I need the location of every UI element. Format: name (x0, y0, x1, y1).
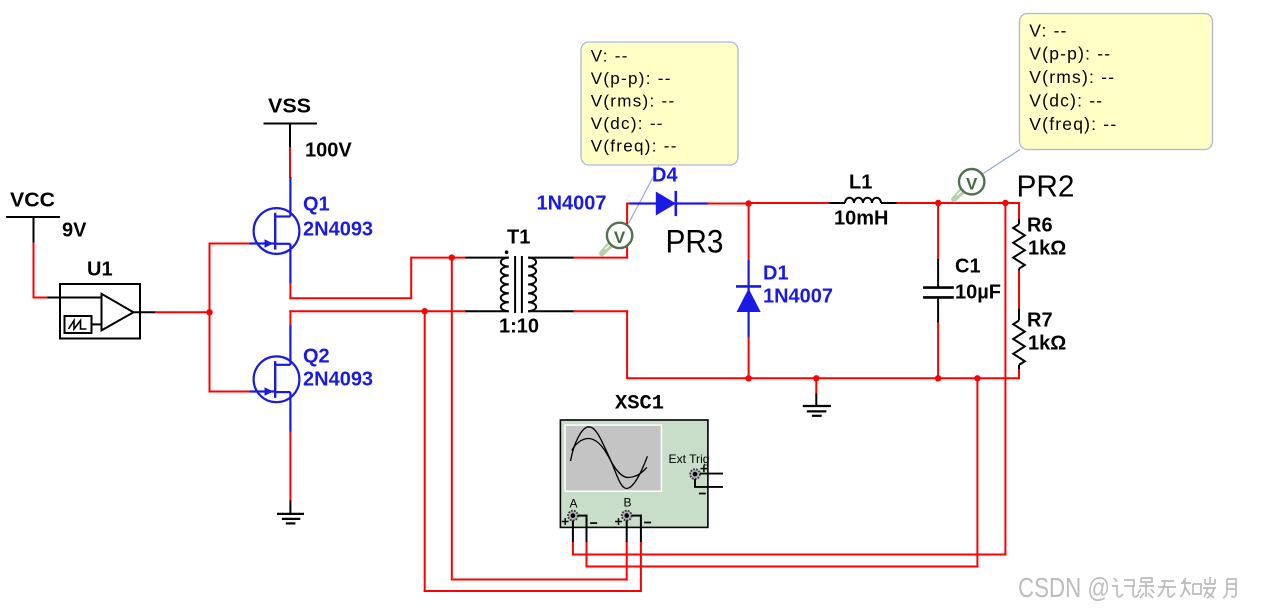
svg-text:Ext Trig: Ext Trig (669, 452, 710, 466)
tooltip box PR3 measurements (581, 42, 738, 165)
svg-text:Q2: Q2 (303, 346, 330, 368)
svg-text:PR3: PR3 (666, 224, 724, 260)
svg-text:1N4007: 1N4007 (537, 193, 607, 215)
wire output node to R6 (1005, 202, 1019, 220)
node output-sense junction (1002, 200, 1008, 206)
svg-text:V(freq): --: V(freq): -- (1029, 114, 1117, 134)
wire Q1 source rail (289, 257, 412, 299)
transistor Q2 2N4093 JFET (254, 325, 300, 403)
svg-text:V(freq): --: V(freq): -- (591, 137, 678, 156)
wire B- lead (632, 515, 641, 542)
wire VSS to Q1 drain (289, 147, 291, 178)
capacitor C1 (923, 259, 954, 323)
wire primary top rail (411, 257, 466, 259)
wire ext trig + stub (700, 473, 723, 475)
resistor R7 1k (1013, 309, 1025, 370)
svg-text:2N4093: 2N4093 (303, 369, 373, 391)
wire A+ lead (572, 521, 574, 543)
svg-text:100V: 100V (305, 140, 352, 162)
svg-text:T1: T1 (507, 227, 530, 249)
svg-text:A: A (570, 497, 578, 511)
probe PR2 (V) (951, 169, 984, 203)
inductor L1 (830, 172, 898, 204)
svg-text:L1: L1 (849, 172, 872, 194)
power VSS symbol (264, 96, 318, 149)
node primary bottom junction (422, 308, 428, 314)
wire bottom rail (627, 377, 1020, 379)
wire to Q1 gate (210, 243, 252, 245)
power VCC symbol (6, 190, 60, 244)
wire secondary top (573, 203, 628, 259)
callout line to PR2 tooltip (983, 150, 1020, 174)
wire R6 to R7 (1018, 271, 1020, 310)
wire D1 anode to bottom rail (748, 337, 750, 380)
wire U1 output (155, 311, 210, 313)
svg-text:PR2: PR2 (1017, 169, 1075, 204)
svg-text:V: V (966, 174, 978, 193)
probe PR3 (V) (599, 223, 632, 257)
wire D4 to node (708, 203, 750, 205)
svg-text:V(p-p): --: V(p-p): -- (1029, 44, 1111, 64)
svg-text:V(dc): --: V(dc): -- (1029, 91, 1103, 111)
wire Q1 source red segment (289, 283, 291, 299)
wire L1 to output node (896, 202, 1020, 204)
wire C1 to bottom rail (937, 322, 939, 379)
svg-text:V: --: V: -- (1029, 20, 1067, 40)
wire primary bottom to scope B- (424, 541, 641, 592)
terminal A (562, 497, 597, 525)
svg-text:9V: 9V (62, 220, 87, 242)
svg-text:V: --: V: -- (591, 46, 629, 65)
wire B+ lead (626, 521, 628, 543)
node primary top junction (449, 254, 455, 260)
svg-text:V(rms): --: V(rms): -- (1029, 67, 1115, 87)
wire R7 to bottom rail (1018, 369, 1020, 379)
svg-text:B: B (624, 496, 632, 510)
svg-text:V(p-p): --: V(p-p): -- (591, 69, 672, 88)
svg-text:1N4007: 1N4007 (763, 286, 833, 308)
svg-text:VSS: VSS (268, 96, 311, 118)
wire gate trunk vertical (209, 243, 211, 393)
wire top rail (749, 202, 831, 204)
svg-text:V(dc): --: V(dc): -- (591, 114, 664, 133)
svg-text:10mH: 10mH (834, 208, 888, 230)
diode D4 1N4007 (630, 191, 709, 216)
label ext trig minus (699, 493, 706, 495)
svg-text:CSDN @: CSDN @ (1018, 572, 1110, 603)
svg-text:2N4093: 2N4093 (303, 219, 373, 241)
terminal B (615, 496, 651, 525)
svg-text:R7: R7 (1027, 310, 1053, 332)
wire secondary bottom (573, 310, 628, 379)
node C1 top junction (935, 200, 941, 206)
svg-text:R6: R6 (1027, 215, 1053, 237)
wire output node to scope A+ (573, 202, 1007, 556)
oscilloscope XSC1 (560, 393, 709, 528)
wire secondary-top corner to D4 (627, 203, 631, 205)
wire Q2 drain red segment (289, 310, 291, 325)
wire primary top to scope B+ (453, 541, 627, 580)
svg-text:XSC1: XSC1 (615, 393, 664, 416)
svg-text:1kΩ: 1kΩ (1028, 238, 1066, 260)
svg-text:V: V (614, 228, 626, 247)
wire A- lead (578, 515, 587, 542)
transistor Q1 2N4093 JFET (254, 177, 300, 284)
svg-text:10µF: 10µF (955, 282, 1001, 304)
svg-text:D1: D1 (763, 263, 789, 285)
wire ext trig - stub (694, 479, 723, 487)
resistor R6 1k (1013, 219, 1025, 272)
svg-text:1:10: 1:10 (499, 316, 539, 338)
node ground junction (813, 375, 819, 381)
watermark CSDN (1018, 572, 1236, 603)
svg-text:C1: C1 (955, 256, 981, 278)
node C1 bottom junction (935, 375, 941, 381)
wire node to C1 (937, 203, 939, 260)
wire to ground (815, 378, 817, 405)
ext trig terminal (690, 465, 707, 479)
callout line to PR3 tooltip (629, 166, 660, 224)
wire VCC to U1 input (33, 243, 49, 299)
node D4 output junction (745, 200, 751, 206)
svg-text:Q1: Q1 (303, 194, 330, 216)
tooltip box PR2 measurements (1020, 14, 1213, 150)
wire node to D1 cathode (748, 203, 750, 262)
svg-text:VCC: VCC (10, 190, 55, 212)
wire to Q2 gate (210, 391, 252, 393)
transformer T1 (466, 227, 575, 314)
wire junction to scope B+ (451, 257, 453, 581)
ground (below Q2) (277, 514, 304, 524)
node D1 bottom junction (745, 375, 751, 381)
svg-text:U1: U1 (87, 259, 113, 281)
node scope A- junction (974, 375, 980, 381)
svg-text:1kΩ: 1kΩ (1028, 333, 1066, 355)
wire Q2 source to ground (289, 431, 291, 501)
svg-text:D4: D4 (652, 165, 678, 187)
svg-text:V(rms): --: V(rms): -- (591, 92, 676, 111)
op-amp U1 (function generator block) (48, 259, 156, 339)
wire primary bottom rail (289, 310, 466, 312)
node U1 output junction (206, 309, 212, 315)
ground (main) (803, 406, 831, 416)
wire bottom rail to scope A- (587, 377, 979, 567)
wire junction to scope B- (424, 310, 426, 592)
diode D1 1N4007 (736, 260, 761, 338)
